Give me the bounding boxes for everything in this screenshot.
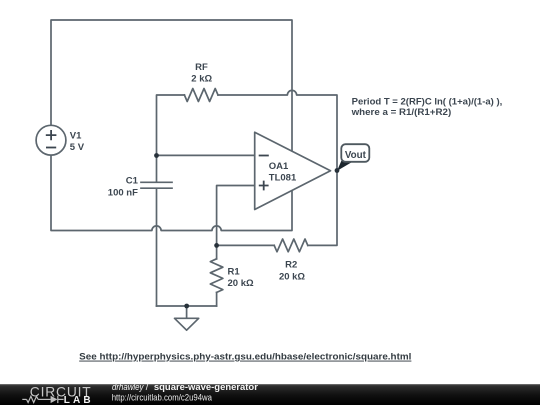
svg-text:square-wave-generator: square-wave-generator — [154, 382, 259, 392]
resistor R1 zigzag — [210, 259, 223, 293]
svg-text:where a = R1/(R1+R2): where a = R1/(R1+R2) — [351, 107, 452, 118]
resistor R1 top lead — [216, 245, 218, 258]
svg-text:20 kΩ: 20 kΩ — [228, 278, 254, 289]
op-amp OA1 triangle — [255, 132, 331, 209]
svg-text:V1: V1 — [70, 131, 82, 142]
op-amp inverting pin minus symbol — [259, 155, 269, 157]
svg-text:20 kΩ: 20 kΩ — [279, 272, 305, 283]
svg-text:RF: RF — [195, 62, 208, 73]
junction dot output node — [335, 168, 340, 173]
wire C1 top lead — [156, 155, 158, 181]
svg-text:See http://hyperphysics.phy-as: See http://hyperphysics.phy-astr.gsu.edu… — [79, 352, 411, 362]
ground symbol triangle — [175, 318, 199, 330]
svg-text:Period T = 2(RF)C ln( (1+a)/(1: Period T = 2(RF)C ln( (1+a)/(1-a) ), — [352, 96, 503, 107]
resistor R1 bottom lead — [216, 292, 218, 306]
svg-text:OA1: OA1 — [269, 161, 289, 172]
wire RF left lead: inverting node up to RF — [157, 95, 185, 155]
svg-text:5 V: 5 V — [70, 142, 85, 153]
wire bottom rail: V1 minus terminal to op-amp V- pin, hops over C1 and R1 verticals — [51, 155, 292, 231]
V1 plus symbol — [46, 130, 57, 140]
op-amp non-inverting pin plus symbol — [259, 181, 269, 191]
svg-text:http://circuitlab.com/c2u94wa: http://circuitlab.com/c2u94wa — [112, 392, 212, 402]
CircuitLab logo diode icon — [51, 396, 58, 403]
wire inverting input — [157, 154, 255, 156]
svg-text:C1: C1 — [126, 175, 139, 186]
junction dot inverting node — [154, 153, 159, 158]
svg-text:Vout: Vout — [345, 150, 367, 161]
resistor RF zigzag — [184, 89, 218, 102]
V1 minus symbol — [46, 147, 56, 149]
svg-text:CIRCUIT: CIRCUIT — [30, 384, 91, 399]
footer bar — [0, 384, 540, 405]
svg-text:R1: R1 — [228, 267, 241, 278]
svg-text:drhawley: drhawley — [112, 382, 144, 392]
svg-text:LAB: LAB — [64, 395, 91, 405]
svg-text:2 kΩ: 2 kΩ — [191, 73, 212, 84]
svg-text:TL081: TL081 — [269, 172, 297, 183]
wire non-inverting input from node — [217, 186, 255, 246]
capacitor C1 plates — [141, 182, 172, 188]
wire C1 bottom lead to ground wire — [156, 189, 158, 306]
wire R2 left lead to non-inverting node — [217, 244, 275, 246]
wire RF right lead to output node down right rail to R2, hops over supply drop — [218, 90, 337, 245]
CircuitLab logo resistor zigzag icon — [22, 396, 63, 403]
wire ground rail — [157, 305, 217, 307]
junction dot non-inverting node — [214, 243, 219, 248]
wire top rail: V1 plus terminal to op-amp V+ supply drop — [51, 20, 292, 151]
resistor R2 zigzag — [274, 239, 308, 252]
voltage source V1 circle — [36, 125, 66, 155]
node Vout pointer — [337, 159, 353, 171]
ground symbol stub — [186, 306, 188, 318]
svg-text:100 nF: 100 nF — [108, 187, 138, 198]
node Vout flag box — [341, 144, 369, 162]
junction dot ground node — [184, 304, 189, 309]
svg-text:R2: R2 — [285, 260, 297, 271]
